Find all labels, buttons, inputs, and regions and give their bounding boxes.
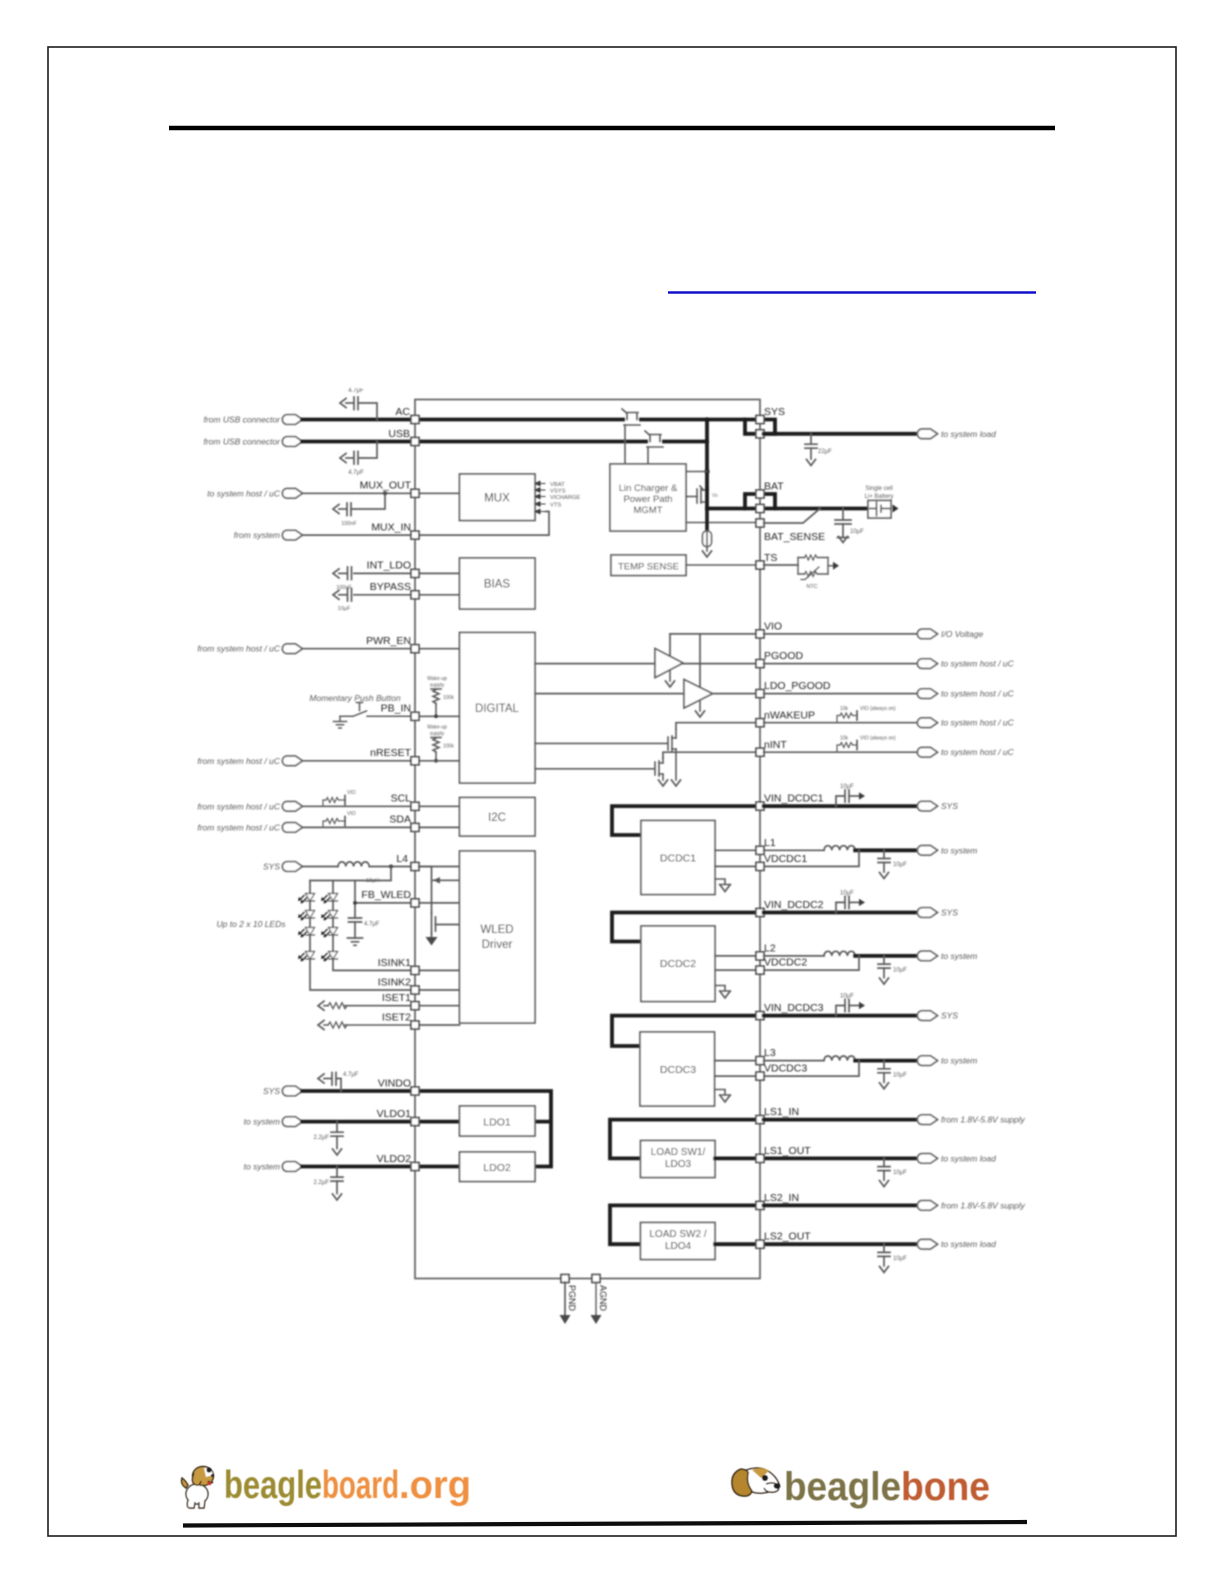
block LOAD SW2 / LDO4 — [641, 1223, 716, 1260]
connector J12 to system — [282, 1162, 302, 1172]
node VIN_DCDC2 pin — [756, 909, 764, 917]
svg-text:Wake-up: Wake-up — [427, 676, 447, 682]
junction R2/nRESET — [434, 759, 438, 763]
wire FB_WLED — [355, 902, 460, 904]
svg-text:from USB connector: from USB connector — [203, 437, 281, 447]
svg-text:22µF: 22µF — [818, 449, 832, 455]
svg-text:10µF: 10µF — [893, 1170, 907, 1176]
svg-text:10µF: 10µF — [893, 968, 907, 974]
svg-text:to system host / uC: to system host / uC — [941, 659, 1015, 669]
svg-text:ISINK1: ISINK1 — [378, 957, 411, 969]
ground arrow for C8 — [333, 1149, 342, 1155]
svg-text:100nF: 100nF — [341, 521, 357, 527]
junction AC/SYS — [705, 417, 709, 421]
svg-text:Driver: Driver — [482, 939, 513, 951]
svg-text:VINDO: VINDO — [378, 1078, 411, 1090]
wire BAT_SENSE tap — [764, 509, 820, 524]
node USB pin — [411, 438, 419, 446]
capacitor C1 4.7uF on AC — [346, 397, 377, 420]
block DCDC1 — [641, 821, 715, 895]
arrow at battery — [893, 505, 899, 513]
svg-text:LOAD SW2 /: LOAD SW2 / — [649, 1229, 706, 1240]
capacitor C6 4.7uF WLED feedback — [348, 881, 363, 946]
node AC pin — [411, 416, 419, 424]
svg-text:I2C: I2C — [488, 812, 506, 824]
svg-text:from system host / uC: from system host / uC — [197, 756, 281, 766]
transistor Q1 AC power path FET — [622, 409, 640, 425]
node ISET1 pin — [411, 1002, 419, 1010]
resistor R8 pull-up on nINT — [837, 745, 856, 752]
block BIAS — [460, 558, 536, 609]
svg-text:SYS: SYS — [941, 908, 958, 918]
ground arrow for Q6 — [426, 937, 438, 946]
wire VIO to system — [764, 633, 918, 635]
svg-text:AC: AC — [395, 406, 410, 418]
capacitor C10 22uF on SYS — [805, 434, 817, 459]
wire Q1 gate to charger — [624, 425, 626, 464]
svg-text:to system: to system — [941, 845, 977, 855]
LED D4 — [321, 911, 338, 921]
node BYPASS pin — [411, 591, 419, 599]
block DCDC2 — [641, 926, 715, 1002]
capacitor C13 10uF on VDCDC1 — [878, 850, 890, 872]
arrow output of RT1 — [828, 565, 833, 567]
svg-text:2.2µF: 2.2µF — [314, 1180, 330, 1186]
node MUX_OUT pin — [411, 489, 419, 497]
svg-text:BAT_SENSE: BAT_SENSE — [764, 531, 825, 543]
wire SYS node vertical thick — [705, 420, 709, 490]
connector J21 SYS — [917, 908, 937, 918]
ground arrow for C10 — [807, 460, 816, 466]
svg-text:LDO4: LDO4 — [665, 1241, 692, 1252]
svg-text:VIO: VIO — [764, 621, 782, 633]
wire WLED switch node to driver with arrow — [433, 877, 460, 884]
wire BYPASS — [354, 594, 460, 596]
node VIN_DCDC3 pin — [756, 1012, 764, 1020]
wire DCDC1 to L1 pin — [715, 849, 757, 851]
logo beaglebone — [732, 1465, 990, 1509]
svg-text:ISET2: ISET2 — [382, 1012, 411, 1024]
connector J15 to system host / uC — [917, 659, 937, 669]
wire ISINK2 to driver — [419, 989, 460, 991]
svg-text:LOAD SW1/: LOAD SW1/ — [651, 1147, 706, 1158]
svg-text:INT_LDO: INT_LDO — [367, 560, 411, 572]
svg-text:PGOOD: PGOOD — [764, 650, 804, 662]
wire battery FET to BAT line thick — [705, 489, 709, 509]
svg-text:BYPASS: BYPASS — [370, 581, 411, 593]
svg-text:LS2_IN: LS2_IN — [764, 1192, 799, 1204]
node ISINK2 pin — [411, 986, 419, 994]
svg-text:2.2µF: 2.2µF — [314, 1135, 330, 1141]
capacitor C14 10uF on VIN_DCDC2 — [836, 896, 859, 912]
node INT_LDO pin — [411, 569, 419, 577]
wire ISET2 to driver — [419, 1024, 460, 1026]
label Wake-up supply — [427, 725, 447, 738]
capacitor C17 10uF on VDCDC3 — [878, 1061, 890, 1083]
connector J5 from system host / uC — [282, 644, 302, 654]
svg-text:LDO_PGOOD: LDO_PGOOD — [764, 680, 831, 692]
capacitor C11 10uF on BAT — [835, 509, 851, 538]
node LS1_OUT pin — [756, 1154, 764, 1162]
svg-text:VDCDC1: VDCDC1 — [764, 853, 807, 865]
svg-text:SYS: SYS — [263, 1086, 280, 1096]
svg-text:ISET1: ISET1 — [382, 992, 411, 1004]
junction on MUX_OUT — [383, 491, 387, 495]
wire VIN_DCDC2 to SYS thick — [764, 911, 918, 915]
ground for DCDC1 — [715, 879, 731, 885]
ground arrow for C2 — [340, 454, 346, 463]
transistor Q4 nWAKEUP open drain — [535, 729, 676, 780]
connector J13 to system load — [917, 429, 937, 439]
svg-text:SYS: SYS — [764, 406, 785, 418]
node SYS pin B — [756, 430, 764, 438]
wire LS2_IN thick feed — [610, 1205, 757, 1244]
svg-text:BAT: BAT — [764, 481, 784, 493]
inductor L5 boost 10uH — [338, 862, 369, 867]
node FB_WLED pin — [411, 899, 419, 907]
ground arrow for C18 — [880, 1181, 889, 1187]
wire L2 to inductor — [764, 955, 824, 957]
svg-text:to system load: to system load — [941, 1153, 996, 1163]
svg-text:Lin Charger &: Lin Charger & — [619, 483, 678, 494]
ground arrow for C7 — [318, 1074, 324, 1083]
node AGND pin — [592, 1275, 600, 1283]
capacitor C15 10uF on VDCDC2 — [878, 956, 890, 978]
svg-text:VIN_DCDC1: VIN_DCDC1 — [764, 793, 824, 805]
junction charger supply — [704, 469, 709, 474]
node VLDO1 pin — [411, 1118, 419, 1126]
svg-text:MUX_IN: MUX_IN — [371, 522, 411, 534]
node VLDO2 pin — [411, 1163, 419, 1171]
ground arrow for C11 — [839, 537, 848, 543]
inductor L2ext — [824, 951, 855, 956]
svg-text:100k: 100k — [443, 744, 454, 750]
connector J22 to system — [917, 951, 937, 961]
capacitor C18 10uF on LS1_OUT — [878, 1158, 890, 1180]
svg-text:DCDC2: DCDC2 — [660, 958, 696, 970]
wire DCDC2 to L2 pin — [715, 955, 757, 957]
svg-text:Power Path: Power Path — [623, 494, 672, 505]
svg-text:from system: from system — [234, 530, 280, 540]
connector J23 SYS — [917, 1011, 937, 1021]
svg-text:4.7µF: 4.7µF — [364, 922, 380, 928]
node SCL pin — [411, 802, 419, 810]
svg-text:VIO (always on): VIO (always on) — [860, 736, 896, 742]
ground arrow for R6 — [318, 1021, 324, 1030]
wire Q2 gate to charger — [647, 447, 649, 464]
svg-text:NTC: NTC — [806, 584, 817, 590]
block Lin Charger & Power Path MGMT — [610, 464, 686, 531]
wire nWAKEUP out — [764, 722, 918, 724]
svg-text:10µF: 10µF — [840, 890, 854, 896]
ground arrow below B1 — [706, 547, 708, 552]
svg-text:DIGITAL: DIGITAL — [475, 703, 519, 715]
svg-text:100k: 100k — [443, 695, 454, 701]
wire LS1_OUT thick — [715, 1157, 918, 1161]
svg-text:DCDC3: DCDC3 — [660, 1064, 696, 1076]
wire nWAKEUP to Q4 drain — [676, 723, 757, 729]
wire nINT to Q5 drain — [663, 752, 757, 758]
wire VIN_DCDC1 thick feed — [612, 806, 757, 835]
connector J20 to system — [917, 846, 937, 856]
capacitor C8 2.2uF on VLDO1 — [331, 1122, 343, 1149]
svg-text:.org: .org — [399, 1464, 471, 1507]
svg-text:VSYS: VSYS — [550, 489, 566, 495]
svg-text:10µF: 10µF — [893, 862, 907, 868]
wire SYS to L4 — [302, 866, 460, 868]
node nWAKEUP pin — [756, 719, 764, 727]
svg-text:Up to 2 x 10 LEDs: Up to 2 x 10 LEDs — [217, 919, 287, 929]
wire L4 to WLED switch drain — [419, 867, 432, 914]
node PWR_EN pin — [411, 645, 419, 653]
wire BAT thick to battery — [707, 507, 868, 511]
svg-text:SDA: SDA — [389, 814, 411, 826]
resistor R5 on ISET1 — [324, 1005, 415, 1007]
svg-text:BIAS: BIAS — [484, 579, 511, 591]
node PGND pin — [561, 1275, 569, 1283]
transistor Q3 battery charge FET — [686, 486, 707, 503]
ground for U3 — [699, 701, 701, 712]
thermistor mark — [801, 567, 819, 580]
svg-text:TEMP SENSE: TEMP SENSE — [618, 562, 679, 573]
wire nINT out — [764, 751, 918, 753]
ground arrow for C17 — [880, 1083, 889, 1089]
svg-text:to system load: to system load — [941, 429, 996, 439]
node L2 pin — [756, 952, 764, 960]
wire AGND to ground — [595, 1282, 597, 1316]
inductor L1ext — [824, 846, 855, 851]
node nRESET pin — [411, 757, 419, 765]
node LDO_PGOOD pin — [756, 690, 764, 698]
block DIGITAL — [460, 633, 536, 784]
node BAT_SENSE pin — [756, 519, 764, 527]
block DCDC3 — [640, 1032, 715, 1106]
node VDCDC3 pin — [756, 1072, 764, 1080]
node L4 pin — [411, 863, 419, 871]
svg-text:VLDO2: VLDO2 — [377, 1153, 412, 1165]
ground arrow for C5 — [333, 590, 339, 599]
wire PGND to ground — [564, 1282, 566, 1316]
svg-text:Vo: Vo — [712, 493, 718, 499]
svg-text:VDCDC2: VDCDC2 — [764, 957, 807, 969]
ground arrow PGND — [560, 1315, 571, 1324]
ground arrow for C4 — [333, 569, 339, 578]
wire VLDO1 thick — [302, 1120, 460, 1124]
LED D2 — [321, 894, 338, 904]
connector J18 to system host / uC — [917, 747, 937, 757]
svg-text:nWAKEUP: nWAKEUP — [764, 710, 815, 722]
connector J19 SYS — [917, 801, 937, 811]
wire LDO_PGOOD out — [764, 693, 918, 695]
capacitor C4 100nF on INT_LDO — [339, 567, 352, 580]
wire charger sense to BAT_SENSE column — [686, 522, 757, 524]
capacitor C3 100nF on MUX_OUT — [339, 493, 385, 515]
LED D8 — [321, 952, 338, 962]
capacitor C19 10uF on LS2_OUT — [878, 1244, 890, 1266]
wire VDCDC1 feedback — [715, 850, 859, 866]
wire L1 to inductor — [764, 849, 824, 851]
svg-text:MUX_OUT: MUX_OUT — [360, 480, 412, 492]
svg-text:beagle: beagle — [224, 1464, 322, 1507]
wire U3 output to LDO_PGOOD pin — [713, 693, 757, 695]
capacitor C16 10uF on VIN_DCDC3 — [836, 1000, 859, 1016]
connector J26 to system load — [917, 1154, 937, 1164]
svg-text:SYS: SYS — [941, 801, 958, 811]
block I2C — [460, 798, 536, 837]
connector J1 from USB connector (AC) — [282, 415, 302, 425]
wire PGOOD out — [764, 663, 918, 665]
svg-text:VIN_DCDC2: VIN_DCDC2 — [764, 899, 824, 911]
svg-text:to system: to system — [941, 951, 977, 961]
capacitor C7 4.7uF on VINDO — [324, 1073, 341, 1092]
connector J14 I/O Voltage — [917, 629, 937, 639]
svg-text:I/O Voltage: I/O Voltage — [941, 629, 983, 639]
node ISET2 pin — [411, 1021, 419, 1029]
resistor R6 on ISET2 — [324, 1024, 415, 1026]
svg-text:PWR_EN: PWR_EN — [366, 635, 411, 647]
node LS2_IN pin — [756, 1201, 764, 1209]
wire nRESET — [302, 760, 460, 762]
wire SCL — [302, 805, 460, 807]
svg-text:SCL: SCL — [391, 793, 412, 805]
connector J9 SYS — [282, 862, 302, 872]
wire charger box to SYS node — [686, 471, 707, 473]
wire DIGITAL to U3 input — [535, 693, 684, 695]
block LDO1 — [460, 1106, 536, 1136]
wire MUX_IN to MUX 5th input — [302, 512, 549, 536]
capacitor C12 10uF on VIN_DCDC1 — [836, 790, 859, 806]
MUX input arrows VBAT VSYS VICHARGE VTS — [535, 481, 545, 513]
LED D6 — [321, 928, 338, 938]
wire DCDC3 output thick — [855, 1059, 918, 1063]
wire DCDC2 output thick — [855, 954, 918, 958]
transistor Q5 nINT open drain — [535, 758, 663, 780]
svg-text:SYS: SYS — [941, 1011, 958, 1021]
resistor R4 pull-up on SDA to VIO — [323, 821, 344, 827]
svg-text:VTS: VTS — [550, 503, 561, 509]
svg-text:10k: 10k — [840, 736, 849, 742]
ground arrow for C13 — [880, 873, 889, 879]
wire SYS link loop between pins — [745, 420, 775, 434]
wire VIN_DCDC3 thick feed — [612, 1016, 757, 1046]
ground for DCDC2 — [715, 986, 731, 992]
capacitor C5 10uF on BYPASS — [339, 589, 352, 602]
svg-text:board: board — [322, 1464, 399, 1507]
ground arrow for Q5 — [659, 780, 668, 786]
svg-text:10µF: 10µF — [840, 994, 854, 1000]
wire PB_IN to DIGITAL — [415, 715, 460, 717]
svg-text:VDCDC3: VDCDC3 — [764, 1063, 807, 1075]
node BAT pin A — [756, 490, 764, 498]
block MUX — [460, 474, 536, 521]
wire SYS output thick — [764, 432, 918, 436]
wire TS to thermistor network — [764, 564, 798, 566]
connector J3 to system host / uC — [282, 489, 302, 499]
wire LED string 2 (inner) — [333, 881, 415, 971]
svg-text:PGND: PGND — [567, 1285, 577, 1312]
wire VIN_DCDC1 to SYS thick — [764, 804, 918, 808]
block LOAD SW1 / LDO3 — [641, 1141, 716, 1178]
node SYS pin A — [756, 416, 764, 424]
svg-text:supply: supply — [430, 731, 445, 737]
op-amp U2 PGOOD buffer — [655, 649, 683, 678]
node L3 pin — [756, 1057, 764, 1065]
svg-text:to system host / uC: to system host / uC — [941, 718, 1015, 728]
node TS pin — [756, 561, 764, 569]
node VINDO pin — [411, 1087, 419, 1095]
capacitor C2 4.7uF on USB — [346, 442, 377, 465]
svg-text:FB_WLED: FB_WLED — [361, 889, 411, 901]
svg-text:from system host / uC: from system host / uC — [197, 801, 281, 811]
junction R1/PB_IN — [434, 714, 438, 718]
svg-text:VLDO1: VLDO1 — [377, 1108, 412, 1120]
resistor R1 wake-up pull-up on PB_IN — [431, 689, 441, 716]
svg-text:to system: to system — [941, 1056, 977, 1066]
svg-text:VIN_DCDC3: VIN_DCDC3 — [764, 1002, 824, 1014]
block LDO2 — [460, 1152, 536, 1182]
svg-text:to system host / uC: to system host / uC — [941, 689, 1015, 699]
ground arrow for C3 — [333, 505, 339, 514]
svg-text:to system host / uC: to system host / uC — [941, 747, 1015, 757]
resistor R7 pull-up on nWAKEUP — [837, 716, 856, 723]
wire LS2_OUT thick — [715, 1242, 918, 1246]
svg-text:VIO (always on): VIO (always on) — [860, 706, 896, 712]
ground arrow for C9 — [333, 1194, 342, 1200]
dog mascot beagleboard — [182, 1467, 215, 1509]
svg-text:LDO3: LDO3 — [665, 1159, 692, 1170]
node LS1_IN pin — [756, 1116, 764, 1124]
svg-text:to system host / uC: to system host / uC — [207, 488, 281, 498]
inductor L3ext — [824, 1056, 855, 1061]
node L1 pin — [756, 846, 764, 854]
wire LS2_IN supply thick — [764, 1204, 918, 1208]
svg-text:L1: L1 — [764, 837, 776, 849]
current sense element B1 — [703, 531, 712, 547]
svg-text:L4: L4 — [396, 853, 408, 865]
svg-text:WLED: WLED — [480, 924, 513, 936]
wire VIO supply drop to U2 — [669, 634, 671, 656]
svg-text:10µF: 10µF — [850, 529, 864, 535]
svg-text:nRESET: nRESET — [370, 747, 411, 759]
svg-text:LS1_OUT: LS1_OUT — [764, 1145, 811, 1157]
ground for U2 — [669, 670, 671, 681]
label Wake-up supply — [427, 676, 447, 689]
wire LED top rail — [310, 867, 391, 881]
wire USB thick — [302, 440, 707, 444]
ground for DCDC3 — [715, 1090, 731, 1096]
wire VIN_DCDC3 to SYS thick — [764, 1014, 918, 1018]
svg-text:4.7µF: 4.7µF — [348, 470, 364, 476]
svg-text:MUX: MUX — [484, 493, 510, 505]
ground arrow for C15 — [880, 978, 889, 984]
wire TEMP SENSE to TS pin — [686, 564, 757, 566]
svg-text:VBAT: VBAT — [550, 482, 565, 488]
connector J25 from 1.8V-5.8V supply — [917, 1115, 937, 1125]
svg-text:from 1.8V-5.8V supply: from 1.8V-5.8V supply — [941, 1115, 1026, 1125]
switch SW1 momentary push button — [340, 703, 415, 717]
transistor Q6 WLED boost switch — [432, 913, 460, 937]
transistor Q2 USB power path FET — [645, 431, 663, 447]
wire DIGITAL to U2 input — [535, 663, 655, 665]
svg-text:to system: to system — [244, 1162, 280, 1172]
svg-text:4.7µF: 4.7µF — [348, 388, 364, 394]
svg-text:LDO2: LDO2 — [483, 1162, 511, 1174]
svg-text:10µF: 10µF — [840, 784, 854, 790]
wire LS1_IN thick feed — [610, 1120, 757, 1159]
node PGOOD pin — [756, 660, 764, 668]
wire BAT link loop between pins — [745, 494, 775, 509]
svg-text:from 1.8V-5.8V supply: from 1.8V-5.8V supply — [941, 1200, 1026, 1210]
